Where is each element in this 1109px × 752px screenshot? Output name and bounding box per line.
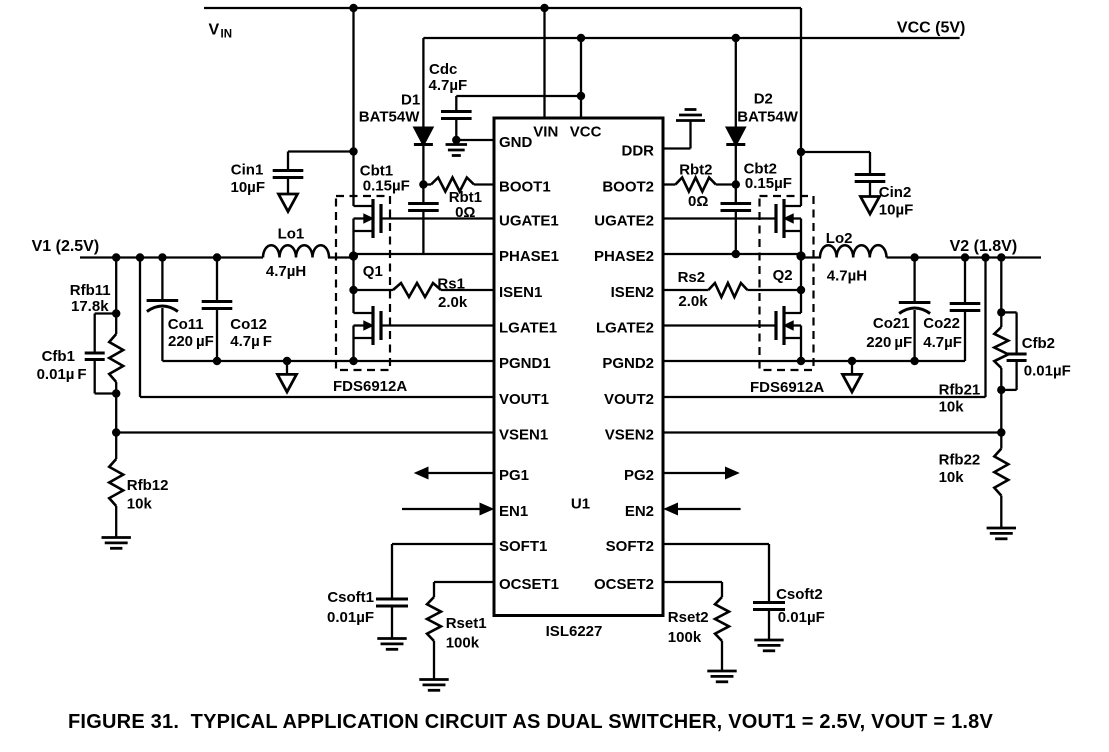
svg-text:Cfb2: Cfb2	[1022, 335, 1055, 352]
node V1/Co11	[158, 253, 166, 261]
ground arrow on PGND1 bus	[286, 361, 288, 374]
svg-text:10k: 10k	[939, 469, 965, 486]
svg-text:V: V	[209, 22, 220, 39]
node VCC rail junction (VCC pin)	[577, 34, 585, 42]
svg-text:GND: GND	[499, 134, 533, 151]
wire VCC pin column	[580, 38, 582, 118]
node PGND1 at Q1	[349, 357, 357, 365]
capacitor Csoft2	[663, 543, 769, 545]
svg-text:100k: 100k	[668, 629, 702, 646]
svg-text:LGATE1: LGATE1	[499, 320, 557, 337]
node Cin1 junction	[349, 147, 357, 155]
wire VOUT1 line	[140, 396, 494, 398]
svg-text:4.7µH: 4.7µH	[827, 268, 867, 285]
svg-text:0.01µ F: 0.01µ F	[37, 366, 87, 383]
wire D1 anode column	[422, 38, 424, 127]
svg-text:220 µF: 220 µF	[168, 333, 214, 350]
wire UGATE1	[381, 217, 494, 219]
svg-text:0.15µF: 0.15µF	[745, 175, 792, 192]
capacitor Co12	[216, 258, 218, 302]
capacitor Cfb2 branch	[1001, 311, 1016, 313]
resistor Rbt2	[663, 183, 675, 185]
svg-text:VOUT2: VOUT2	[604, 391, 654, 408]
svg-text:Rfb21: Rfb21	[939, 382, 981, 399]
wire LGATE1	[381, 324, 494, 326]
svg-text:PGND2: PGND2	[602, 355, 654, 372]
svg-text:OCSET2: OCSET2	[594, 576, 654, 593]
wire VOUT1 column	[139, 258, 141, 398]
ground arrow under Cin1	[279, 194, 298, 212]
svg-text:4.7µF: 4.7µF	[429, 77, 468, 94]
capacitor Cin1	[287, 152, 289, 171]
ground under Rset2	[707, 670, 736, 673]
op-amp U1 ISL6227 body	[494, 118, 663, 616]
wire Q2 lower source to PGND2	[800, 326, 802, 362]
wire VIN top rail	[204, 7, 801, 9]
svg-text:V1 (2.5V): V1 (2.5V)	[32, 238, 100, 255]
wire V1 to Rfb11	[115, 258, 117, 335]
ground under Rfb12	[102, 536, 131, 539]
wire VSEN2 line	[663, 431, 1001, 433]
node PGND2 at Q2	[797, 357, 805, 365]
capacitor Cbt1	[422, 185, 424, 204]
wire D2 anode column	[735, 38, 737, 127]
svg-text:SOFT1: SOFT1	[499, 538, 547, 555]
inductor Lo2	[820, 245, 887, 257]
node V1/Rfb11	[112, 253, 120, 261]
resistor Rbt1	[423, 183, 431, 185]
transistor Q1 dashed box	[336, 196, 390, 370]
svg-text:U1: U1	[571, 496, 590, 513]
svg-text:0.01µF: 0.01µF	[1024, 363, 1071, 380]
svg-text:VCC: VCC	[570, 124, 602, 141]
inductor Lo1	[263, 245, 329, 257]
capacitor Co22	[964, 258, 966, 304]
capacitor Co11	[161, 258, 163, 301]
svg-text:Q2: Q2	[773, 267, 793, 284]
node PHASE2	[796, 251, 805, 260]
ground under Csoft2	[754, 639, 783, 642]
svg-text:PG1: PG1	[499, 467, 529, 484]
wire DDR pin	[663, 147, 691, 149]
node V1/VOUT1	[136, 253, 144, 261]
diode D2 BAT54W	[726, 127, 746, 146]
svg-text:2.0k: 2.0k	[438, 294, 468, 311]
transistor Q1 upper FET	[371, 199, 374, 238]
wire VOUT2 column	[984, 258, 986, 398]
capacitor Cdc	[441, 110, 472, 113]
svg-text:VIN: VIN	[533, 124, 558, 141]
svg-text:ISEN2: ISEN2	[611, 284, 654, 301]
svg-text:PGND1: PGND1	[499, 355, 551, 372]
wire VIN pin column	[543, 8, 545, 118]
wire V2 output line	[887, 256, 1042, 258]
ground under Rfb22	[987, 527, 1016, 530]
diode D1 BAT54W	[413, 127, 433, 146]
ground under Csoft1	[377, 637, 406, 640]
resistor Rfb21	[994, 327, 1008, 368]
svg-text:4.7µF: 4.7µF	[923, 334, 962, 351]
capacitor Cfb1 branch	[95, 312, 117, 314]
wire Q1 upper source to phase	[352, 219, 354, 314]
svg-text:BAT54W: BAT54W	[359, 109, 420, 126]
svg-text:BOOT1: BOOT1	[499, 179, 551, 196]
node PGND1/Co12	[213, 357, 221, 365]
svg-text:Csoft2: Csoft2	[776, 586, 823, 603]
wire EN1 with arrow	[402, 508, 481, 510]
node V2/VOUT2	[981, 253, 989, 261]
node Cfb2 top	[997, 308, 1005, 316]
node VSEN1 tap	[112, 428, 120, 436]
svg-text:UGATE1: UGATE1	[499, 213, 559, 230]
capacitor Co21	[913, 258, 915, 303]
svg-text:Cfb1: Cfb1	[42, 348, 75, 365]
svg-text:Rfb22: Rfb22	[939, 452, 981, 469]
capacitor Csoft1	[392, 543, 494, 545]
svg-text:Rset2: Rset2	[668, 609, 709, 626]
svg-text:VSEN2: VSEN2	[605, 427, 654, 444]
node BOOT2	[732, 180, 740, 188]
svg-text:LGATE2: LGATE2	[596, 320, 654, 337]
wire V2 to Rfb21	[1000, 258, 1002, 328]
wire Rfb12 to ground	[115, 506, 117, 538]
svg-text:Rs1: Rs1	[437, 276, 465, 293]
node V2/Co21	[910, 253, 918, 261]
wire VSEN1 line	[116, 431, 494, 433]
resistor Rs1	[354, 289, 394, 291]
svg-text:ISEN1: ISEN1	[499, 284, 542, 301]
wire Rfb21 bottom	[1000, 368, 1002, 449]
svg-text:DDR: DDR	[622, 143, 655, 160]
resistor Rs2	[663, 289, 708, 291]
svg-text:0.01µF: 0.01µF	[778, 609, 825, 626]
wire UGATE2	[663, 217, 776, 219]
node Cfb2 bottom	[997, 386, 1005, 394]
transistor Q2 lower FET	[782, 306, 785, 345]
svg-text:IN: IN	[221, 29, 233, 41]
node PHASE1	[349, 251, 358, 260]
node VCC rail junction (D2 anode)	[732, 34, 740, 42]
svg-text:Rfb12: Rfb12	[127, 477, 169, 494]
svg-text:D1: D1	[401, 92, 420, 109]
node Cin2 junction	[797, 148, 805, 156]
node Cfb1 top	[112, 309, 120, 317]
svg-text:Csoft1: Csoft1	[327, 589, 374, 606]
svg-text:Rset1: Rset1	[446, 615, 487, 632]
svg-text:Cin1: Cin1	[231, 162, 264, 179]
ground arrow under Cin2	[861, 197, 880, 215]
svg-text:Rbt2: Rbt2	[679, 162, 712, 179]
wire Cin2 link	[801, 151, 870, 153]
svg-text:BAT54W: BAT54W	[737, 109, 798, 126]
node Cdc/GND junction	[452, 136, 460, 144]
node Cfb1 bottom	[112, 389, 120, 397]
wire VIN left drop to Q1 drain	[352, 8, 354, 206]
svg-text:PHASE2: PHASE2	[594, 248, 654, 265]
svg-text:FIGURE 31. TYPICAL APPLICATIO: FIGURE 31. TYPICAL APPLICATION CIRCUIT A…	[68, 711, 994, 733]
wire D1 cathode to BOOT1 node	[422, 145, 424, 185]
svg-text:0Ω: 0Ω	[688, 193, 708, 210]
svg-text:0.15µF: 0.15µF	[363, 178, 410, 195]
svg-text:Cdc: Cdc	[429, 61, 457, 78]
node ISEN1	[349, 286, 357, 294]
inverted ground above DDR	[676, 119, 705, 122]
wire D2 cathode to BOOT2 node	[735, 145, 737, 185]
node ISEN2	[797, 286, 805, 294]
svg-text:0.01µF: 0.01µF	[327, 609, 374, 626]
wire GND pin	[456, 139, 494, 141]
wire VOUT2 line	[663, 396, 986, 398]
svg-text:Co12: Co12	[230, 316, 267, 333]
svg-text:FDS6912A: FDS6912A	[750, 379, 824, 396]
svg-text:4.7µ F: 4.7µ F	[230, 333, 272, 350]
svg-text:Rs2: Rs2	[678, 269, 706, 286]
transistor Q2 dashed box	[760, 196, 814, 370]
resistor Rfb22	[994, 449, 1008, 496]
wire PGND1 line	[162, 360, 494, 362]
wire VCC rail	[423, 37, 959, 39]
wire PGND2 line	[663, 360, 965, 362]
svg-text:Lo1: Lo1	[278, 226, 305, 243]
svg-text:OCSET1: OCSET1	[499, 576, 559, 593]
wire Q2 upper source to phase	[800, 219, 802, 314]
svg-text:100k: 100k	[446, 635, 480, 652]
wire V1 output line	[80, 256, 263, 258]
node V2/Co22	[961, 253, 969, 261]
node PGND1/ground arrow	[283, 357, 291, 365]
capacitor Cin2	[869, 152, 871, 175]
svg-text:D2: D2	[754, 91, 773, 108]
svg-text:VCC (5V): VCC (5V)	[897, 20, 965, 37]
node V1/Co12	[213, 253, 221, 261]
svg-text:Lo2: Lo2	[826, 230, 853, 247]
svg-text:VOUT1: VOUT1	[499, 391, 549, 408]
svg-text:10µF: 10µF	[879, 202, 914, 219]
svg-text:VSEN1: VSEN1	[499, 427, 548, 444]
transistor Q1 lower FET	[371, 306, 374, 345]
svg-text:FDS6912A: FDS6912A	[333, 378, 407, 395]
wire PG2 with arrow	[663, 472, 726, 474]
wire PHASE2 line	[663, 253, 801, 255]
node Cbt2/PHASE2	[732, 250, 740, 258]
node PGND2/ground arrow	[848, 357, 856, 365]
node BOOT1	[419, 180, 427, 188]
wire Cdc top link	[456, 95, 581, 97]
node Cdc link junction	[577, 92, 585, 100]
svg-text:4.7µH: 4.7µH	[266, 263, 306, 280]
ground under Rset1	[419, 678, 448, 681]
wire PG1 with arrow	[428, 472, 494, 474]
ground under Cdc	[446, 143, 468, 146]
svg-text:V2 (1.8V): V2 (1.8V)	[950, 238, 1018, 255]
transistor Q2 upper FET	[782, 199, 785, 238]
svg-text:Co21: Co21	[873, 315, 910, 332]
svg-text:10k: 10k	[939, 399, 965, 416]
wire Cin1 link	[288, 150, 354, 152]
svg-text:UGATE2: UGATE2	[594, 213, 654, 230]
node VIN rail junction (VIN pin)	[540, 4, 548, 12]
ground arrow on PGND2 bus	[851, 361, 853, 374]
wire Rfb22 to ground	[1000, 496, 1002, 528]
node V2/Rfb21	[997, 253, 1005, 261]
svg-text:PHASE1: PHASE1	[499, 248, 559, 265]
resistor Rfb11	[109, 334, 123, 382]
svg-text:2.0k: 2.0k	[678, 293, 708, 310]
svg-text:10k: 10k	[127, 496, 153, 513]
svg-text:ISL6227: ISL6227	[546, 623, 603, 640]
resistor Rset2	[663, 581, 722, 583]
svg-text:Cin2: Cin2	[879, 184, 912, 201]
wire EN2 with arrow	[678, 508, 741, 510]
resistor Rset1	[434, 581, 494, 583]
svg-text:Q1: Q1	[363, 263, 383, 280]
svg-text:Co11: Co11	[168, 316, 204, 333]
node VSEN2 tap	[997, 428, 1005, 436]
svg-text:EN1: EN1	[499, 503, 528, 520]
svg-text:EN2: EN2	[625, 503, 654, 520]
node PGND2/Co21	[910, 357, 918, 365]
resistor Rfb12	[109, 459, 123, 506]
wire Q1 lower source to PGND	[352, 326, 354, 362]
svg-text:BOOT2: BOOT2	[602, 179, 654, 196]
capacitor Cbt2	[735, 185, 737, 204]
svg-text:Rfb11: Rfb11	[70, 282, 111, 299]
wire LGATE2	[663, 324, 776, 326]
wire Rfb11 bottom	[115, 382, 117, 459]
wire PHASE1 line	[328, 256, 354, 258]
svg-text:SOFT2: SOFT2	[606, 538, 654, 555]
svg-text:Co22: Co22	[923, 315, 960, 332]
svg-text:220 µF: 220 µF	[866, 334, 912, 351]
node VIN rail junction (phase-1 feed)	[349, 4, 357, 12]
svg-text:PG2: PG2	[624, 467, 654, 484]
wire VIN right drop to Q2 drain	[800, 8, 802, 206]
svg-text:10µF: 10µF	[231, 179, 266, 196]
